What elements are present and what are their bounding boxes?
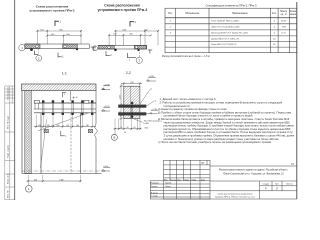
svg-text:90: 90 (127, 127, 129, 129)
project text (219, 168, 288, 175)
svg-text:Горлей: Горлей (165, 182, 171, 185)
svg-text:Расход полосовой стали на 1 пр: Расход полосовой стали на 1 проём — 1,5 … (162, 55, 210, 58)
scheme 2 T mark right (148, 50, 153, 53)
scheme 2 second cut mark (128, 53, 137, 58)
frame right vertical line (296, 2, 298, 199)
svg-text:-80х6 ГОСТ 103-2006 L=300: -80х6 ГОСТ 103-2006 L=300 (211, 27, 240, 29)
top hatched slab band (22, 84, 97, 91)
scheme 2 axis circle left (93, 46, 98, 51)
svg-text:Наименование: Наименование (232, 13, 249, 15)
svg-text:180: 180 (86, 125, 89, 127)
svg-text:Взам. инв.: Взам. инв. (7, 173, 9, 184)
svg-text:Спецификация элементов ПРм-2,: Спецификация элементов ПРм-2, ПРм-3 (205, 4, 257, 8)
svg-text:№док.: №док. (184, 178, 190, 181)
top grid box (164, 160, 211, 199)
wall bottom line (22, 173, 102, 175)
svg-text:Провер.: Провер. (151, 186, 159, 188)
svg-text:Шайба М16 ГОСТ 11371-78: Шайба М16 ГОСТ 11371-78 (211, 37, 239, 40)
channel dark bands (118, 105, 146, 108)
scheme 1 bottom cut marks (35, 51, 62, 58)
diagonal leader (38, 113, 89, 131)
svg-text:ГОСТ 8240-97 №16 L=1460: ГОСТ 8240-97 №16 L=1460 (211, 20, 239, 23)
left dim structure 2-2 (120, 84, 122, 129)
end plates (34, 100, 39, 103)
svg-text:устраиваемого проёма ПРм-2: устраиваемого проёма ПРм-2 (29, 9, 75, 13)
header row text (164, 178, 206, 181)
svg-text:Кол.: Кол. (272, 13, 277, 15)
cut mark 2 top (in beam area) (63, 92, 66, 97)
svg-text:90: 90 (133, 127, 135, 129)
wall section hatched (124, 86, 140, 118)
svg-text:проёмов ПРм-2, ПРм-3. Сечения: проёмов ПРм-2, ПРм-3. Сечения 1-1, 2-2 (215, 196, 255, 198)
axis circle 1 (28, 182, 30, 185)
svg-text:чание: чание (290, 14, 297, 16)
sheet title (215, 193, 255, 198)
scheme 2 dimension lines (109, 30, 159, 46)
scheme 1 dim ticks (37, 30, 83, 37)
svg-text:0,000: 0,000 (104, 166, 109, 168)
scheme 1 wall band plan (25, 44, 90, 51)
level mark right 2-2 lower (146, 110, 159, 113)
svg-text:Стадия: Стадия (263, 184, 269, 186)
rotated tiny text in margin cells (6, 86, 9, 198)
bolts with heads top and bottom (42, 100, 93, 114)
svg-text:Инв. №: Инв. № (6, 190, 9, 198)
svg-text:Подп. и дата: Подп. и дата (7, 144, 9, 158)
scheme 1 dimension line A (37, 30, 82, 44)
level marks right side of 1-1 (102, 86, 111, 90)
svg-text:В: В (114, 136, 116, 140)
scheme 2 wall band plan (98, 45, 147, 51)
right hatched pier (63, 44, 78, 49)
svg-text:+2,170: +2,170 (104, 106, 110, 108)
left wall hatch strip (25, 91, 32, 174)
svg-text:Лист: Лист (275, 184, 279, 186)
svg-text:ед., кг: ед., кг (281, 14, 287, 16)
svg-text:+2,780: +2,780 (104, 84, 110, 86)
svg-text:Поз.: Поз. (168, 13, 173, 15)
break zigzag on right face (95, 124, 98, 138)
opening edges (40, 113, 42, 174)
leaders right with labels (140, 89, 151, 104)
frame left vertical line (14, 0, 16, 200)
beam channels horizontal lines (34, 103, 96, 113)
svg-text:40: 40 (76, 97, 78, 99)
dim line under beams (34, 126, 96, 128)
verticals top part (169, 160, 171, 181)
svg-text:Гайка М16 ГОСТ 5915-70: Гайка М16 ГОСТ 5915-70 (211, 43, 237, 46)
svg-text:90: 90 (124, 132, 126, 134)
svg-text:90: 90 (119, 112, 121, 114)
svg-text:Кол.уч: Кол.уч (170, 179, 176, 181)
wall right face (95, 91, 97, 125)
bolt circles on piers (36, 45, 39, 48)
scheme 2 bottom cut mark (106, 51, 110, 56)
svg-text:180: 180 (66, 125, 69, 127)
svg-text:Инв. № подл.: Инв. № подл. (6, 115, 9, 129)
svg-text:Согласовано: Согласовано (7, 86, 9, 100)
svg-text:Орлов: Орлов (165, 186, 171, 188)
svg-text:1400: 1400 (59, 179, 63, 181)
svg-text:Реконструкция нежилого здания: Реконструкция нежилого здания по адресу:… (219, 168, 288, 171)
scheme 2 axis circle bottom right (139, 49, 141, 57)
table rows (170, 20, 288, 47)
scheme 1 axis circle left (19, 45, 25, 51)
svg-text:180: 180 (47, 125, 50, 127)
svg-text:Обозначение: Обозначение (185, 13, 200, 15)
svg-text:Н.контр.: Н.контр. (151, 192, 159, 194)
svg-text:Схема расположения устраиваемы: Схема расположения устраиваемых (217, 193, 253, 195)
svg-text:180: 180 (56, 125, 59, 127)
bolt through (131, 102, 133, 119)
floor dash-dot line (22, 170, 104, 172)
svg-text:+3,180: +3,180 (149, 76, 155, 78)
left hatched pier (25, 44, 40, 49)
svg-text:2-2: 2-2 (126, 71, 131, 75)
svg-text:Подп.: Подп. (192, 179, 197, 181)
extension lines down to dim line (36, 115, 92, 128)
scheme 1 axis circle bottom (38, 49, 40, 56)
svg-text:Изм.: Изм. (164, 179, 169, 181)
scheme 2 cut mark top (130, 21, 134, 27)
scheme 1 T mark right (91, 47, 96, 51)
bolt stems (43, 100, 93, 115)
svg-text:+2,780: +2,780 (151, 109, 157, 111)
left margin stamp cells (5, 86, 15, 200)
band outline (25, 43, 90, 45)
bottom ext lines and dim 2-2 (115, 119, 140, 130)
svg-text:250: 250 (130, 82, 133, 84)
svg-text:300: 300 (34, 179, 37, 181)
right part (210, 165, 297, 167)
wall outer face left (21, 91, 23, 174)
dashed center line of opening (70, 113, 72, 174)
svg-text:У копир.: У копир. (151, 196, 159, 198)
stadia cells (263, 184, 293, 186)
svg-text:Разработ.: Разработ. (151, 183, 160, 185)
svg-text:L=300: L=300 (144, 123, 149, 125)
svg-text:1,5П: 1,5П (119, 95, 121, 100)
scheme 1 cut mark top (55, 21, 59, 27)
leader text bottom right 2-2 (133, 119, 143, 123)
svg-text:1-1: 1-1 (62, 72, 67, 76)
svg-text:90: 90 (120, 127, 122, 129)
axis circle 2-2 (114, 130, 116, 134)
level mark top right 2-2 (147, 78, 157, 81)
cut mark 2 bottom (61, 131, 65, 136)
svg-text:М20: М20 (145, 127, 149, 129)
svg-text:Шпилька М16 ГОСТ 22042-76 L=45: Шпилька М16 ГОСТ 22042-76 L=450 (211, 33, 249, 35)
small dark squares below dim line (44, 129, 49, 132)
top dim line 2-2 (121, 83, 142, 85)
scheme 1 dimension line B (47, 35, 82, 37)
svg-text:20.87: 20.87 (281, 21, 287, 23)
svg-text:180: 180 (76, 125, 79, 127)
table header texts (168, 11, 297, 16)
svg-text:г) После снятия балок болтами,: г) После снятия балок болтами, разобрать… (158, 140, 272, 144)
svg-text:Листов: Листов (286, 184, 292, 186)
svg-text:Южно-Сахалинский р-н, г. Корса: Южно-Сахалинский р-н, г. Корсаков, ул. Ф… (223, 173, 284, 176)
svg-text:устраиваемого проёма ПРм-3: устраиваемого проёма ПРм-3 (98, 8, 148, 12)
bottom dimension line (27, 180, 82, 182)
svg-text:Лист: Лист (177, 179, 181, 181)
